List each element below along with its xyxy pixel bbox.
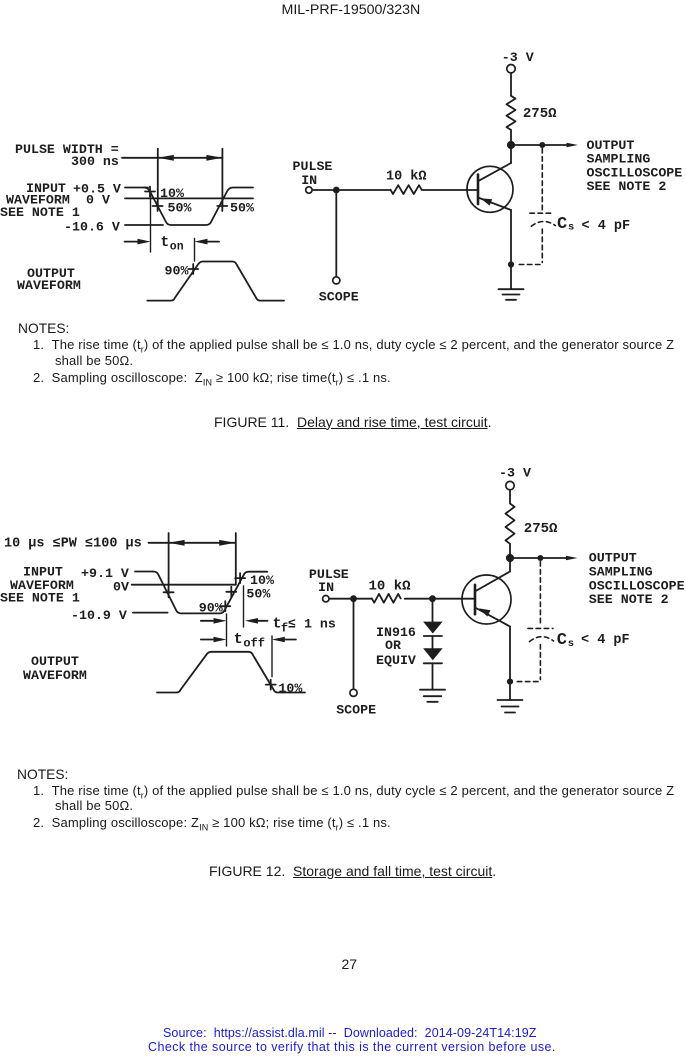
svg-text:275Ω: 275Ω — [523, 106, 557, 122]
svg-text:0 V: 0 V — [86, 193, 110, 208]
svg-text:50%: 50% — [246, 587, 270, 602]
svg-text:IN: IN — [318, 580, 334, 595]
svg-text:-10.9 V: -10.9 V — [71, 608, 127, 623]
svg-text:s: s — [568, 222, 574, 234]
svg-text:90%: 90% — [199, 601, 223, 616]
svg-text:WAVEFORM: WAVEFORM — [23, 668, 87, 683]
svg-text:EQUIV: EQUIV — [376, 653, 416, 668]
svg-text:-3 V: -3 V — [502, 50, 534, 65]
svg-text:275Ω: 275Ω — [524, 521, 558, 537]
svg-text:s: s — [568, 638, 574, 650]
svg-text:OR: OR — [385, 638, 401, 653]
svg-text:SCOPE: SCOPE — [336, 703, 376, 718]
svg-text:IN: IN — [301, 173, 317, 188]
svg-text:10 kΩ: 10 kΩ — [386, 170, 427, 185]
svg-text:< 4 pF: < 4 pF — [581, 633, 630, 648]
svg-text:OUTPUT: OUTPUT — [589, 551, 637, 566]
svg-text:off: off — [243, 637, 265, 651]
svg-text:0V: 0V — [113, 580, 129, 595]
svg-text:SEE NOTE 2: SEE NOTE 2 — [589, 592, 669, 607]
svg-text:on: on — [170, 241, 184, 254]
svg-text:OUTPUT: OUTPUT — [31, 654, 79, 669]
svg-text:10%: 10% — [250, 573, 274, 588]
svg-text:SEE NOTE 1: SEE NOTE 1 — [0, 205, 80, 220]
svg-text:t: t — [161, 235, 170, 251]
svg-text:50%: 50% — [230, 201, 254, 216]
svg-text:≤ 1 ns: ≤ 1 ns — [288, 617, 336, 632]
svg-text:SAMPLING: SAMPLING — [589, 564, 653, 579]
svg-text:SEE NOTE 1: SEE NOTE 1 — [0, 591, 80, 606]
svg-text:WAVEFORM: WAVEFORM — [17, 278, 81, 293]
svg-text:10%: 10% — [278, 681, 302, 696]
svg-text:PULSE: PULSE — [293, 159, 333, 174]
svg-text:C: C — [557, 631, 567, 650]
svg-text:SEE NOTE 2: SEE NOTE 2 — [587, 179, 667, 194]
svg-text:< 4 pF: < 4 pF — [582, 219, 631, 234]
svg-text:OSCILLOSCOPE: OSCILLOSCOPE — [589, 578, 685, 593]
svg-text:300 ns: 300 ns — [71, 154, 119, 169]
svg-text:10 μs ≤PW ≤100 μs: 10 μs ≤PW ≤100 μs — [4, 537, 142, 552]
svg-text:t: t — [234, 631, 243, 648]
svg-text:10%: 10% — [160, 186, 184, 201]
svg-text:-3 V: -3 V — [499, 466, 531, 481]
svg-text:90%: 90% — [165, 264, 189, 279]
svg-text:50%: 50% — [168, 201, 192, 216]
svg-text:10 kΩ: 10 kΩ — [369, 579, 412, 595]
svg-text:SCOPE: SCOPE — [319, 289, 359, 304]
svg-text:C: C — [557, 215, 567, 234]
svg-text:-10.6 V: -10.6 V — [64, 220, 120, 235]
